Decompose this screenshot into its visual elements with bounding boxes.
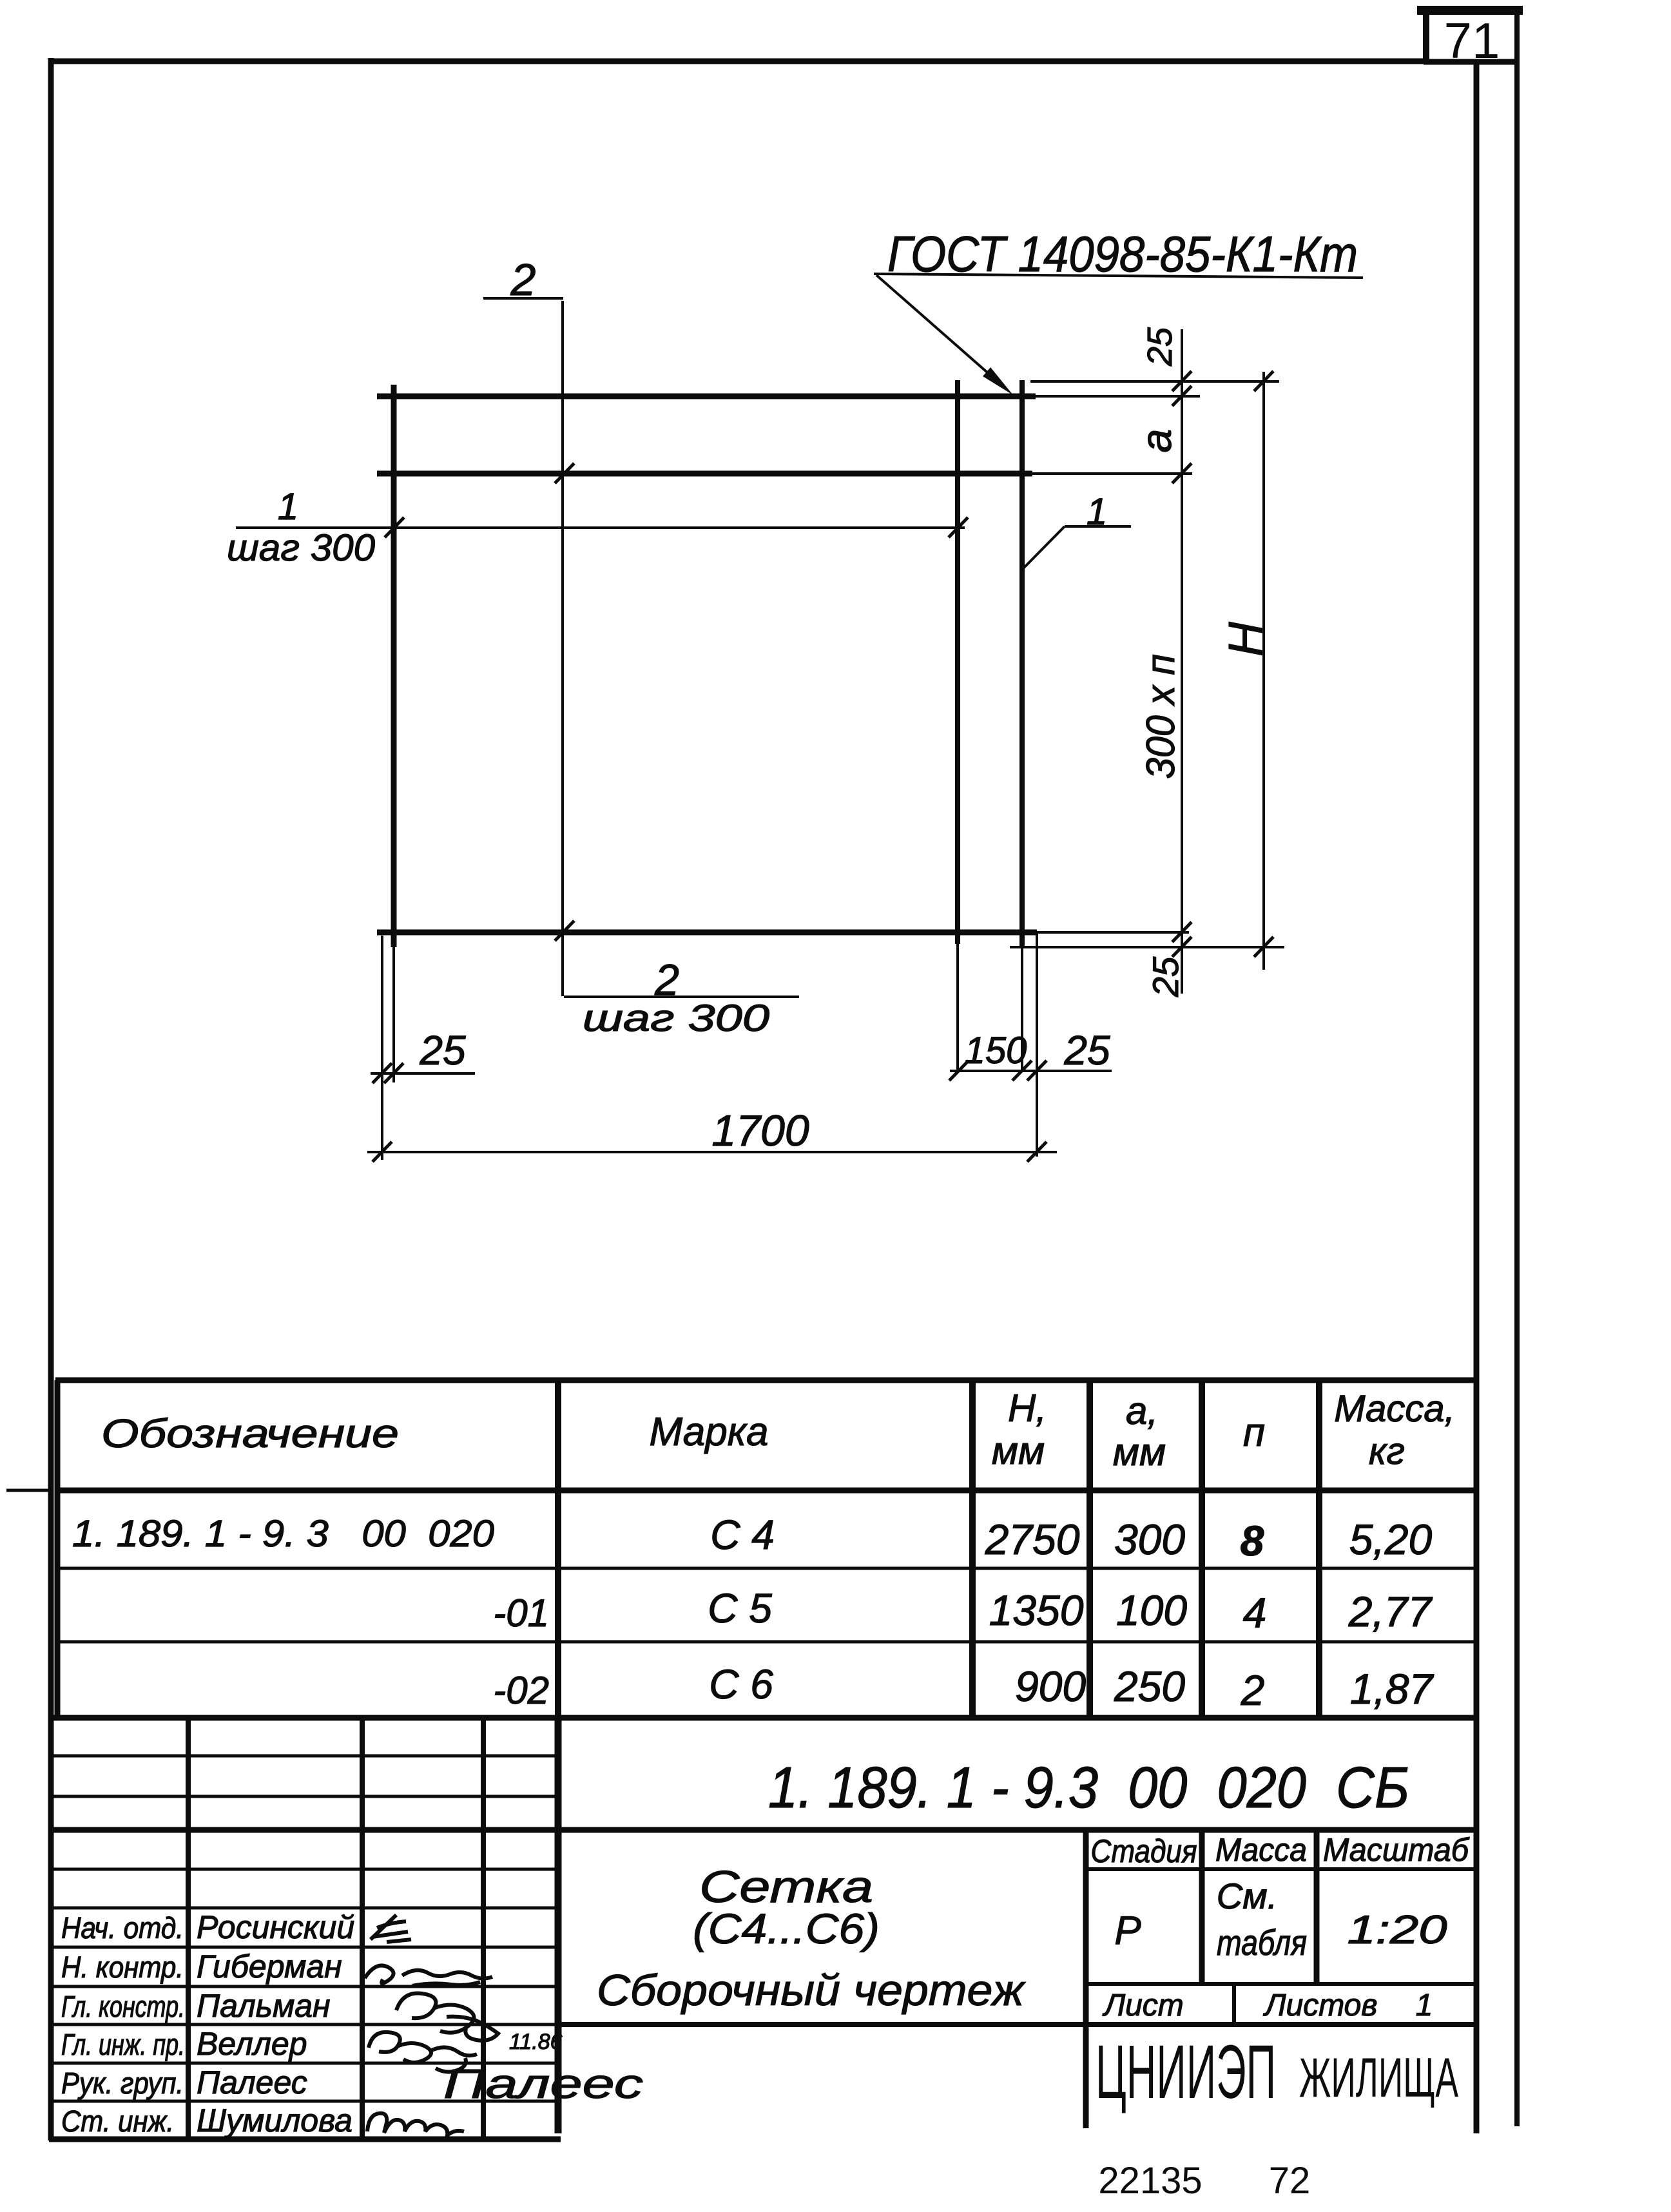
svg-text:1350: 1350 — [989, 1586, 1084, 1634]
svg-text:кг: кг — [1369, 1430, 1405, 1472]
page number box left edge — [1423, 13, 1429, 63]
mini table header underline y2901 — [1086, 1867, 1476, 1871]
column line a/n — [1199, 1380, 1205, 1718]
svg-text:Лист: Лист — [1102, 1988, 1184, 2023]
svg-text:5,20: 5,20 — [1349, 1515, 1433, 1563]
frame left border — [48, 58, 54, 2140]
svg-text:Нач. отд.: Нач. отд. — [61, 1911, 184, 1945]
svg-text:С 6: С 6 — [709, 1661, 773, 1707]
spec table top edge — [55, 1378, 1476, 1383]
svg-text:Сборочный чертеж: Сборочный чертеж — [597, 1966, 1026, 2015]
svg-text:Масса: Масса — [1215, 1832, 1307, 1868]
sheet outer right edge — [1514, 12, 1520, 2126]
svg-text:1: 1 — [1416, 1988, 1433, 2023]
mini table vertical x2043 — [1314, 1830, 1320, 1984]
sig row 6 signature — [367, 2113, 464, 2135]
tick at right bar on shag300 line — [949, 517, 968, 537]
title block top line y2840 — [53, 1827, 1476, 1833]
tick x593 y1788 — [372, 1142, 392, 1162]
svg-text:Гл. констр.: Гл. констр. — [61, 1990, 185, 2023]
sig row line y3202 — [53, 2062, 558, 2065]
top bar extension line y615 — [1036, 395, 1200, 398]
spec table bottom edge — [53, 1715, 1476, 1721]
svg-text:мм: мм — [1113, 1430, 1166, 1474]
sig row line y3142 left — [53, 2023, 558, 2026]
sig row line y3261 — [53, 2100, 558, 2103]
spec table header bottom line — [55, 1488, 1476, 1494]
svg-text:71: 71 — [1444, 12, 1500, 69]
spec table row line 2 — [55, 1640, 1476, 1644]
column line n/massa — [1316, 1380, 1322, 1718]
svg-text:8: 8 — [1241, 1517, 1264, 1564]
page number box top bar — [1417, 6, 1523, 15]
spec table row line 1 — [55, 1567, 1476, 1570]
svg-text:72: 72 — [1269, 2160, 1311, 2202]
signature table vertical col C — [481, 1718, 486, 2139]
svg-text:300: 300 — [1114, 1515, 1185, 1563]
tick x611 y1666 — [384, 1063, 403, 1083]
signature table vertical col B — [360, 1718, 365, 2139]
dimension vertical line a / 300xn — [1181, 329, 1183, 994]
mesh top transverse bar — [377, 394, 1036, 399]
svg-text:4: 4 — [1243, 1589, 1267, 1637]
mini table vertical x1865 — [1199, 1830, 1205, 1984]
svg-text:а,: а, — [1126, 1389, 1158, 1432]
column line oboznachenie/marka — [555, 1380, 561, 1718]
svg-text:2: 2 — [1241, 1666, 1265, 1714]
sig row 2 signature — [365, 1965, 492, 1986]
fold mark line left — [6, 1489, 51, 1492]
svg-text:С 4: С 4 — [710, 1512, 775, 1558]
double tick at x1834 y1447 — [1172, 922, 1192, 942]
tick x1609 y1662 — [1027, 1061, 1047, 1081]
dim line 1700 — [367, 1151, 1057, 1153]
tick at section2 x bottom bar — [555, 921, 574, 941]
double tick at x1834 y615 — [1172, 386, 1192, 406]
svg-text:25: 25 — [1145, 956, 1186, 997]
svg-text:Рук. груп.: Рук. груп. — [61, 2066, 184, 2100]
svg-text:2: 2 — [510, 255, 536, 305]
svg-text:1:20: 1:20 — [1347, 1908, 1447, 1952]
svg-text:Палеес: Палеес — [443, 2061, 643, 2107]
bottom extension line right y1470 — [1010, 946, 1284, 948]
signature table vertical col A — [186, 1718, 191, 2139]
svg-text:Масса,: Масса, — [1334, 1388, 1455, 1430]
sig row line y3083 — [53, 1985, 558, 1988]
tick x593 y1666 — [372, 1063, 392, 1083]
svg-text:Ст. инж.: Ст. инж. — [61, 2104, 174, 2138]
svg-text:Н,: Н, — [1008, 1387, 1047, 1430]
svg-text:Р: Р — [1114, 1909, 1141, 1953]
svg-text:См.: См. — [1217, 1876, 1277, 1916]
svg-text:1. 189. 1 - 9. 3 00 020: 1. 189. 1 - 9. 3 00 020 — [72, 1513, 494, 1555]
spec table left edge — [55, 1380, 61, 1718]
dim line 150/25 bottom-right — [950, 1070, 1112, 1072]
svg-text:25: 25 — [419, 1027, 466, 1073]
svg-text:Пальман: Пальман — [197, 1988, 331, 2024]
section 2 top label underline — [483, 297, 563, 300]
list/listov vertical x1915 — [1232, 1984, 1236, 2024]
tick dim H top at x1961 — [1254, 371, 1273, 391]
mesh left longitudinal bar — [391, 385, 397, 947]
svg-text:22135: 22135 — [1098, 2160, 1202, 2202]
svg-text:ЦНИИЭП: ЦНИИЭП — [1096, 2030, 1276, 2115]
leader line for label 1 right — [1065, 525, 1131, 528]
svg-text:ЖИЛИЩА: ЖИЛИЩА — [1299, 2047, 1458, 2109]
column line H/a — [1087, 1380, 1093, 1718]
right end extension vertical x1609 — [1036, 932, 1038, 1157]
section 2 bottom label underline — [564, 995, 799, 998]
left bar thin continuation — [392, 947, 395, 1082]
svg-text:2750: 2750 — [985, 1515, 1080, 1563]
sig row line y2788 — [53, 1795, 558, 1798]
frame right border — [1474, 62, 1480, 2133]
svg-text:шаг 300: шаг 300 — [227, 527, 375, 569]
middle extension line right — [1032, 472, 1192, 475]
bar A thin continuation — [956, 944, 959, 1071]
svg-text:300 х п: 300 х п — [1139, 654, 1183, 779]
tick dim a top at x1834 — [1172, 371, 1192, 391]
double tick dim a bottom — [1172, 463, 1192, 483]
svg-text:ГОСТ 14098-85-К1-Кт: ГОСТ 14098-85-К1-Кт — [887, 226, 1358, 282]
svg-text:1. 189. 1 - 9.3 00 020 СБ: 1. 189. 1 - 9.3 00 020 СБ — [768, 1756, 1409, 1820]
frame top border — [48, 59, 1427, 64]
svg-text:шаг 300: шаг 300 — [583, 997, 769, 1039]
leader diagonal for label 1 right — [1023, 526, 1065, 568]
tick at x1961 y1470 — [1254, 937, 1273, 957]
svg-text:-02: -02 — [493, 1669, 549, 1712]
title block divider vertical — [555, 1718, 562, 2133]
svg-text:Обозначение: Обозначение — [101, 1412, 399, 1456]
tick x1488 y1662 — [949, 1061, 969, 1081]
svg-text:250: 250 — [1114, 1662, 1185, 1710]
title block middle line y3142 — [558, 2022, 1476, 2027]
tick x1609 y1788 — [1027, 1142, 1047, 1162]
GOST label underline — [874, 274, 1363, 278]
GOST leader arrowhead — [983, 367, 1013, 395]
svg-text:150: 150 — [965, 1030, 1027, 1072]
svg-text:25: 25 — [1141, 327, 1179, 367]
svg-text:Веллер: Веллер — [197, 2026, 307, 2062]
svg-text:Н: Н — [1219, 622, 1272, 657]
svg-text:Гл. инж. пр.: Гл. инж. пр. — [61, 2028, 185, 2061]
svg-text:11.86: 11.86 — [509, 2030, 563, 2054]
svg-text:Шумилова: Шумилова — [197, 2102, 353, 2139]
svg-text:п: п — [1243, 1410, 1265, 1455]
svg-text:Гиберман: Гиберман — [197, 1948, 342, 1985]
svg-text:Росинский: Росинский — [197, 1909, 354, 1945]
svg-text:С 5: С 5 — [708, 1585, 772, 1631]
svg-text:Н. контр.: Н. контр. — [61, 1950, 184, 1984]
svg-text:100: 100 — [1116, 1586, 1187, 1634]
GOST leader arrow line — [876, 275, 998, 381]
sig row line y2961 — [53, 1907, 558, 1910]
dimension line shag 300 horizontal — [236, 526, 965, 529]
svg-text:1: 1 — [1087, 491, 1107, 533]
svg-text:Палеес: Палеес — [197, 2064, 307, 2101]
svg-text:1,87: 1,87 — [1350, 1665, 1434, 1713]
svg-text:-01: -01 — [493, 1592, 549, 1635]
dim line 25 bottom-left — [371, 1072, 475, 1075]
svg-text:а: а — [1132, 429, 1180, 453]
svg-text:Масштаб: Масштаб — [1323, 1832, 1470, 1868]
top extension line right — [1030, 380, 1279, 383]
sig row line y3022 — [53, 1946, 558, 1949]
svg-text:1700: 1700 — [711, 1106, 809, 1155]
mini table left vertical x1685 — [1083, 1830, 1089, 2128]
section 2 cut line vertical — [561, 301, 564, 996]
tick at section2 x mid bar — [555, 463, 574, 483]
signature table bottom edge — [49, 2137, 561, 2142]
svg-text:мм: мм — [992, 1429, 1045, 1472]
dimension vertical line H — [1262, 372, 1265, 970]
sig row 1 signature — [371, 1915, 411, 1942]
tick x1586 y1662 — [1012, 1061, 1032, 1081]
svg-text:табля: табля — [1217, 1922, 1307, 1963]
svg-text:25: 25 — [1063, 1027, 1110, 1073]
svg-text:(С4...С6): (С4...С6) — [693, 1905, 880, 1952]
mesh right edge longitudinal bar B — [1019, 380, 1025, 948]
bottom-left extension vertical x593 — [381, 936, 383, 1160]
column line marka/H — [969, 1380, 976, 1718]
svg-text:1: 1 — [278, 486, 298, 528]
sig row 3 signature — [396, 1994, 498, 2041]
svg-text:Марка: Марка — [649, 1410, 768, 1454]
bottom extension line right y1447 — [1037, 931, 1189, 934]
svg-text:2,77: 2,77 — [1348, 1588, 1433, 1635]
page number box bottom edge — [1424, 59, 1517, 65]
mesh second transverse bar — [377, 471, 1032, 477]
sig row 4 signature — [369, 2032, 477, 2072]
svg-text:Листов: Листов — [1263, 1988, 1378, 2023]
mesh bottom transverse bar — [377, 930, 1037, 936]
svg-text:Стадия: Стадия — [1091, 1833, 1197, 1869]
tick at left bar on shag300 line — [385, 517, 404, 537]
mini table line y3079 — [1086, 1982, 1476, 1986]
bar B thin continuation — [1021, 948, 1023, 1071]
svg-text:900: 900 — [1015, 1662, 1086, 1710]
mesh right longitudinal bar A — [955, 380, 960, 944]
sig row line y2725 — [53, 1755, 558, 1758]
sig row line y2901 — [53, 1868, 558, 1871]
